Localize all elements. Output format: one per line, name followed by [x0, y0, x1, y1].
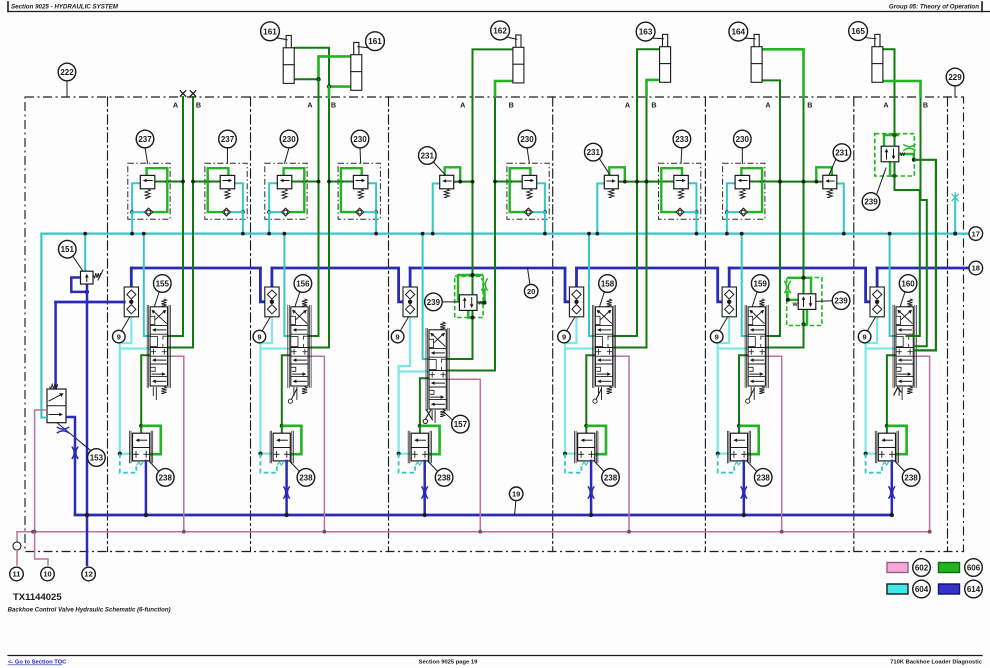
pilot check assembly section 3 — [403, 287, 417, 317]
node 238 circle section 2 — [297, 469, 315, 487]
svg-text:A: A — [625, 101, 630, 110]
wire blue bus elbow to pilot assembly section 3 — [399, 268, 403, 302]
node 9 circle section 4 — [558, 330, 571, 343]
svg-text:238: 238 — [757, 473, 771, 482]
svg-text:238: 238 — [437, 473, 451, 482]
wire blue bus drop to pilot assembly top section 1 — [130, 268, 133, 287]
wire pink drain section 3 — [446, 379, 481, 532]
control valve spool section 3 — [425, 328, 427, 410]
svg-text:B: B — [509, 101, 514, 110]
cyan pilot bus 17 wire — [41, 233, 969, 235]
wire green cylinder 164 lines — [762, 49, 803, 97]
node 239 circle section 5 — [832, 292, 850, 310]
svg-text:239: 239 — [427, 298, 441, 307]
check valve 238 section 3 — [407, 431, 409, 463]
anti-cavitation valve 239 section 6 — [875, 134, 915, 176]
node 9 circle section 5 — [710, 330, 723, 343]
svg-text:9: 9 — [117, 332, 121, 341]
svg-text:B: B — [807, 101, 812, 110]
wire green cylinder 165 lines — [883, 49, 895, 97]
legend cyan 604 — [887, 584, 908, 594]
svg-text:161: 161 — [368, 37, 382, 46]
cyan bus left drop wire — [40, 234, 42, 418]
control valve spool section 4 — [591, 305, 593, 387]
check valve 238 section 6 — [874, 431, 876, 463]
wire green A-line section 3 — [472, 97, 474, 359]
svg-text:158: 158 — [601, 279, 615, 288]
wire cyan pilot drop section 6 — [890, 234, 897, 336]
svg-text:151: 151 — [61, 245, 75, 254]
pilot actuator 157 section 3 — [426, 410, 432, 420]
swing cylinder 161 right — [354, 42, 359, 71]
svg-text:163: 163 — [639, 28, 653, 37]
wire blue bus elbow to pilot assembly section 2 — [260, 268, 264, 302]
wire blue bus drop to pilot assembly top section 4 — [575, 268, 578, 287]
node 222 circle — [58, 63, 76, 81]
port letters A and B — [173, 101, 928, 110]
svg-text:153: 153 — [90, 453, 104, 462]
manual lever section 6 — [894, 388, 902, 396]
node 239 circle section 3 — [425, 293, 443, 311]
wire green B-line staircase section 6 — [913, 97, 927, 346]
svg-text:164: 164 — [731, 28, 745, 37]
pilot check assembly section 1 — [124, 287, 138, 317]
wire cyan assembly-to-check section 3 — [399, 317, 411, 454]
wire green workport to check valve section 1 — [141, 355, 151, 426]
bucket cylinder 164 — [754, 34, 759, 63]
node 11 circle — [10, 567, 24, 581]
wire cyan pilot drop section 4 — [589, 234, 596, 336]
svg-text:231: 231 — [835, 149, 849, 158]
wire green workport to check valve section 4 — [586, 355, 596, 426]
wire green cylinder 162 lines — [473, 49, 513, 97]
svg-text:Section 9025 - HYDRAULIC SYSTE: Section 9025 - HYDRAULIC SYSTEM — [11, 4, 119, 11]
wire blue regulated line — [56, 301, 125, 304]
wire green B-line section 5 — [803, 97, 805, 348]
wire green cylinder 163 lines — [637, 49, 660, 97]
port relief valve 230 left section 5 — [723, 163, 765, 219]
wire cyan assembly-to-check section 2 — [260, 317, 272, 454]
wire blue bus drop to pilot assembly top section 2 — [270, 268, 273, 287]
node 157 circle section 3 — [452, 415, 470, 433]
control valve spool section 5 — [744, 305, 746, 387]
svg-text:Group 05: Theory of Operation: Group 05: Theory of Operation — [889, 4, 979, 11]
port relief valve 230 right section 3 — [507, 163, 549, 219]
wire cyan assembly-to-check section 5 — [718, 317, 730, 454]
node 9 circle section 1 — [113, 330, 126, 343]
pilot check assembly section 5 — [722, 287, 736, 317]
relief valve 231 section 4 — [609, 167, 625, 181]
node 160 circle section 6 — [899, 275, 917, 293]
node 239 circle section 6 — [862, 193, 880, 211]
wire cyan dashed pilot line 238 section 5 — [718, 454, 735, 473]
wire green workport to check valve section 5 — [739, 355, 749, 426]
svg-text:B: B — [331, 101, 336, 110]
wire green workport to check valve section 2 — [282, 355, 292, 426]
svg-text:19: 19 — [512, 490, 520, 499]
svg-text:161: 161 — [263, 27, 277, 36]
wire blue check-to-return section 3 — [423, 461, 426, 515]
node 158 circle section 4 — [599, 275, 617, 293]
svg-text:155: 155 — [156, 279, 170, 288]
svg-text:Backhoe Control Valve Hydrauli: Backhoe Control Valve Hydraulic Schemati… — [8, 607, 171, 614]
svg-text:9: 9 — [863, 332, 867, 341]
wire green B-line section 4 — [646, 97, 648, 348]
svg-text:Section 9025 page 19: Section 9025 page 19 — [419, 660, 478, 666]
control valve spool section 6 — [892, 305, 894, 387]
relief valve 231 section 3 — [445, 167, 461, 181]
svg-text:238: 238 — [604, 473, 618, 482]
svg-text:w: w — [899, 151, 906, 158]
svg-text:162: 162 — [493, 27, 507, 36]
node 159 circle section 5 — [751, 275, 769, 293]
wire pink drain section 6 — [913, 356, 930, 532]
control valve spool section 2 — [287, 305, 289, 387]
wire green third line section 6 — [913, 160, 936, 351]
node 9 circle section 2 — [253, 330, 266, 343]
blue pressure bus 18 wire — [131, 267, 969, 270]
svg-text:602: 602 — [915, 563, 929, 572]
wire cyan feed to valve 151 — [84, 234, 86, 272]
svg-text:9: 9 — [257, 332, 261, 341]
wire pink drain section 2 — [307, 356, 324, 532]
svg-text:11: 11 — [13, 570, 21, 579]
svg-text:9: 9 — [562, 332, 566, 341]
svg-text:B: B — [196, 101, 201, 110]
svg-text:A: A — [173, 101, 178, 110]
wire blue bus elbow to pilot assembly section 6 — [866, 268, 870, 302]
svg-text:160: 160 — [901, 279, 915, 288]
wire cyan dashed pilot line 238 section 6 — [866, 454, 883, 473]
wire cyan pilot drop section 5 — [742, 234, 749, 336]
footer rule — [8, 655, 982, 657]
node 19 circle — [509, 487, 523, 501]
svg-text:231: 231 — [587, 148, 601, 157]
wire blue check-to-return section 5 — [743, 461, 746, 515]
legend pink 602 — [887, 563, 908, 573]
port relief valve 233 right section 4 — [659, 163, 701, 219]
wire green workport to check valve section 6 — [887, 355, 897, 426]
svg-text:231: 231 — [421, 151, 435, 160]
svg-text:233: 233 — [675, 135, 689, 144]
node 153 circle — [88, 449, 106, 467]
wire cyan plugged riser right — [954, 200, 956, 234]
svg-text:12: 12 — [84, 570, 92, 579]
pink drain bus wire — [17, 531, 930, 533]
check valve 238 section 2 — [269, 431, 271, 463]
wire cyan pilot drop section 3 — [423, 234, 430, 359]
node 238 circle section 4 — [602, 469, 620, 487]
wire blue check-to-return section 4 — [590, 461, 593, 515]
pilot check assembly section 2 — [265, 287, 279, 317]
svg-text:606: 606 — [967, 563, 981, 572]
svg-text:9: 9 — [396, 332, 400, 341]
wire green swing cylinder cross lines — [294, 48, 329, 87]
node 17 circle — [969, 227, 983, 241]
svg-text:A: A — [307, 101, 312, 110]
wire cyan dashed pilot line 238 section 1 — [120, 454, 137, 473]
relief valve 231 section 5 — [816, 167, 832, 181]
wire cyan dashed pilot line 238 section 3 — [399, 454, 416, 473]
check valve 238 section 4 — [574, 431, 576, 463]
svg-text:156: 156 — [296, 279, 310, 288]
node 155 circle section 1 — [154, 275, 172, 293]
wire cyan dashed pilot line 238 section 4 — [565, 454, 582, 473]
wire green A-line section 5 — [779, 97, 781, 336]
swing cylinder 161 left — [286, 36, 291, 65]
svg-text:230: 230 — [520, 135, 534, 144]
svg-text:A: A — [883, 101, 888, 110]
wire blue valve 153 outlet — [66, 417, 75, 515]
wire green B-line section 3 — [494, 97, 496, 371]
svg-text:229: 229 — [948, 73, 962, 82]
control valve spool section 1 — [146, 305, 148, 387]
wire green A-line section 4 — [636, 97, 638, 336]
wire blue check-to-return section 1 — [145, 461, 148, 515]
svg-text:238: 238 — [159, 473, 173, 482]
node 229 circle — [946, 68, 964, 86]
svg-text:710K Backhoe Loader Diagnostic: 710K Backhoe Loader Diagnostic — [890, 660, 983, 666]
svg-text:B: B — [923, 101, 928, 110]
valve section dash-dot borders — [108, 97, 948, 552]
check valve 238 section 5 — [726, 431, 728, 463]
wire green A-line section 1 — [182, 97, 184, 336]
svg-text:222: 222 — [60, 68, 74, 77]
pilot check assembly section 6 — [870, 287, 884, 317]
check valve 238 section 1 — [129, 431, 131, 463]
svg-text:18: 18 — [972, 264, 980, 273]
node 9 circle section 3 — [391, 330, 404, 343]
extend cylinder 165 — [875, 34, 880, 63]
svg-text:239: 239 — [864, 197, 878, 206]
svg-text:A: A — [460, 101, 465, 110]
node 20 circle — [524, 284, 538, 298]
node 151 circle — [59, 240, 77, 258]
svg-text:17: 17 — [972, 229, 980, 238]
svg-text:230: 230 — [353, 135, 367, 144]
wire green B-line section 1 — [192, 97, 194, 348]
wire green A-line staircase section 6 — [894, 97, 896, 146]
wire green B-line section 2 — [328, 97, 330, 348]
svg-text:614: 614 — [967, 585, 981, 594]
wire green workport to check valve section 3 — [420, 378, 430, 426]
wire blue riser to port 12 — [86, 302, 89, 565]
port relief valve 230 left section 2 — [265, 163, 307, 219]
wire cyan assembly-to-check section 1 — [120, 317, 132, 454]
port relief valve 230 right section 2 — [338, 163, 380, 219]
svg-text:w: w — [792, 301, 799, 308]
svg-text:237: 237 — [221, 135, 235, 144]
legend green 606 — [939, 563, 960, 573]
svg-text:237: 237 — [138, 135, 152, 144]
wire pink left end to port 11 — [16, 532, 18, 542]
node 10 circle — [41, 567, 55, 581]
wire blue check-to-return section 6 — [891, 461, 894, 515]
crowd cylinder 163 — [663, 34, 668, 63]
port relief valve 237 right section 1 — [205, 163, 247, 219]
svg-text:159: 159 — [754, 279, 768, 288]
wire cyan assembly-to-check section 4 — [565, 317, 577, 454]
node 156 circle section 2 — [294, 275, 312, 293]
svg-text:20: 20 — [527, 287, 535, 296]
node 238 circle section 6 — [902, 469, 920, 487]
svg-text:238: 238 — [299, 473, 313, 482]
svg-text:B: B — [651, 101, 656, 110]
wire cyan assembly-to-check section 6 — [866, 317, 878, 454]
node 238 circle section 1 — [157, 469, 175, 487]
wire blue bus drop to pilot assembly top section 6 — [876, 268, 879, 287]
node 12 circle — [82, 567, 96, 581]
svg-text:w: w — [477, 300, 484, 307]
wire blue check-to-return section 2 — [285, 461, 288, 515]
plugged port marks section 1 — [180, 91, 185, 96]
svg-text:9: 9 — [715, 332, 719, 341]
wire pink drain section 1 — [167, 356, 184, 532]
svg-text:238: 238 — [904, 473, 918, 482]
svg-text:10: 10 — [43, 570, 51, 579]
svg-text:TX1144025: TX1144025 — [13, 592, 62, 603]
svg-text:230: 230 — [282, 135, 296, 144]
anti-cavitation valve 239 section 3 — [455, 276, 483, 317]
wire green A-line section 2 — [318, 97, 320, 336]
node 18 circle — [969, 261, 983, 275]
legend blue 614 — [939, 584, 960, 594]
boom cylinder 162 — [516, 35, 521, 64]
svg-text:157: 157 — [454, 420, 468, 429]
wire blue bus drop to pilot assembly top section 5 — [728, 268, 731, 287]
wire pink drain section 4 — [612, 356, 629, 532]
svg-text:165: 165 — [851, 27, 865, 36]
wire blue bus elbow to pilot assembly section 4 — [565, 268, 569, 302]
anti-cavitation valve 239 section 5 — [787, 278, 822, 326]
wire cyan dashed pilot line 238 section 2 — [260, 454, 277, 473]
svg-text:A: A — [765, 101, 770, 110]
wire pink drain section 5 — [765, 356, 782, 532]
port relief valve 237 left section 1 — [128, 163, 170, 219]
control valve 153 — [47, 389, 66, 423]
wire blue bus elbow to pilot assembly section 5 — [718, 268, 722, 302]
node 9 circle section 6 — [858, 330, 871, 343]
outer dash-dot boundary box — [25, 97, 964, 552]
pressure reducing valve 151 — [71, 278, 87, 292]
wire cyan pilot drop section 1 — [144, 234, 151, 336]
pilot check assembly section 4 — [569, 287, 583, 317]
svg-text:230: 230 — [736, 135, 750, 144]
wire blue bus drop to pilot assembly top section 3 — [409, 268, 412, 287]
header rule — [7, 2, 9, 12]
wire pink lower elbow to port 10 — [35, 532, 48, 566]
node 238 circle section 5 — [754, 469, 772, 487]
svg-text:604: 604 — [915, 585, 929, 594]
blue return bus 19 wire — [75, 514, 892, 517]
wire cyan pilot drop section 2 — [284, 234, 291, 336]
node 238 circle section 3 — [435, 469, 453, 487]
svg-text:239: 239 — [834, 297, 848, 306]
